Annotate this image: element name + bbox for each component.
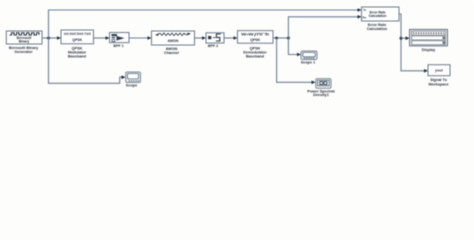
block AWGN Channel bbox=[152, 31, 195, 45]
label BPF2 bbox=[208, 44, 218, 48]
block Bernoulli Binary Generator bbox=[6, 31, 42, 44]
wire QPSK Modulator to transmit filter bbox=[94, 36, 110, 40]
wire Tx branch up to Error Rate Calculation bbox=[49, 8, 362, 38]
svg-text:Calculation: Calculation bbox=[369, 14, 387, 18]
wire AWGN Channel to receive filter bbox=[195, 36, 207, 40]
label Bernoulli Binary Generator bbox=[9, 46, 39, 54]
block transmit filter BPF1 bbox=[110, 33, 130, 43]
svg-text:W•WƒΠΓЂ: W•WƒΠΓЂ bbox=[241, 32, 269, 36]
svg-text:Scope 1: Scope 1 bbox=[301, 60, 316, 64]
label QPSK Modulator Baseband bbox=[68, 46, 87, 58]
label Scope1 bbox=[301, 60, 316, 64]
svg-text:Baseband: Baseband bbox=[68, 54, 87, 58]
wire transmit filter to AWGN Channel bbox=[129, 36, 152, 40]
svg-text:Tx: Tx bbox=[363, 8, 367, 12]
wire Rx branch up to Error Rate Calculation bbox=[288, 15, 361, 38]
svg-text:BPF 1: BPF 1 bbox=[113, 44, 123, 48]
svg-text:Calculation: Calculation bbox=[367, 27, 388, 31]
label Error Rate Calculation bbox=[367, 23, 388, 31]
svg-text:QPSK: QPSK bbox=[250, 38, 260, 42]
wire down to Power Spectral Density bbox=[277, 38, 316, 84]
junction Display branch bbox=[400, 37, 403, 40]
svg-text:Binary: Binary bbox=[19, 40, 30, 44]
block Power Spectral Density bbox=[316, 79, 331, 89]
label Display bbox=[422, 48, 436, 52]
svg-text:Density1: Density1 bbox=[313, 93, 329, 97]
wire QPSK Demodulator output bbox=[273, 37, 288, 39]
svg-text:Generator: Generator bbox=[14, 50, 33, 54]
block Scope bbox=[126, 72, 141, 83]
wire down to Scope1 bbox=[288, 38, 301, 56]
block QPSK Demodulator Baseband bbox=[238, 31, 274, 44]
label QPSK Demodulator Baseband bbox=[243, 46, 267, 58]
label Scope bbox=[126, 84, 137, 88]
junction at Bernoulli output bbox=[47, 37, 50, 40]
block QPSK Modulator Baseband bbox=[61, 30, 94, 44]
wire down-branch to Scope bbox=[49, 38, 126, 83]
label Power Spectral Density bbox=[307, 89, 334, 97]
junction to Power Spectral Density bbox=[275, 37, 278, 40]
svg-text:BPF 2: BPF 2 bbox=[208, 44, 218, 48]
svg-text:yout: yout bbox=[435, 69, 444, 73]
wire Bernoulli output to QPSK Modulator bbox=[42, 36, 61, 40]
block Scope1 bbox=[301, 51, 317, 60]
block Signal To Workspace bbox=[428, 65, 450, 76]
block Display bbox=[410, 29, 448, 46]
label AWGN Channel bbox=[164, 47, 179, 55]
wire to Display bbox=[401, 36, 410, 40]
wire receive filter to QPSK Demodulator bbox=[224, 36, 238, 40]
svg-text:Scope: Scope bbox=[126, 84, 137, 88]
svg-text:Rx: Rx bbox=[363, 16, 367, 20]
label Signal To Workspace bbox=[428, 78, 448, 86]
svg-text:Display: Display bbox=[422, 48, 436, 52]
svg-text:AWGN: AWGN bbox=[168, 39, 179, 43]
svg-text:π/4 3π/4 5π/4 7π/4: π/4 3π/4 5π/4 7π/4 bbox=[64, 32, 91, 36]
wire Error Rate output down to Signal To Workspace bbox=[399, 14, 428, 73]
svg-text:Baseband: Baseband bbox=[246, 54, 265, 58]
svg-text:Channel: Channel bbox=[164, 51, 179, 55]
svg-text:Workspace: Workspace bbox=[428, 82, 448, 86]
block receive filter BPF2 bbox=[206, 33, 224, 43]
block Error Rate Calculation bbox=[362, 7, 400, 21]
junction Rx branch bbox=[287, 37, 290, 40]
label BPF1 bbox=[113, 44, 123, 48]
svg-text:QPSK: QPSK bbox=[72, 38, 82, 42]
